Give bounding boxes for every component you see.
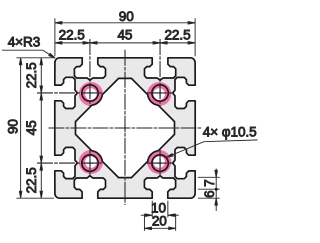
dimension chain 22.5 / 45 / 22.5 (top): [55, 42, 195, 44]
dimension 10 (slot opening width): [151, 201, 153, 218]
centerlines of bottom-right hole: [159, 149, 161, 177]
svg-text:4× φ10.5: 4× φ10.5: [203, 124, 257, 139]
dimension 90 (top overall width): [55, 22, 195, 24]
svg-text:90: 90: [119, 9, 134, 24]
pink highlight ring on bottom-left hole: [82, 153, 100, 171]
centerlines of bottom-left hole: [89, 149, 91, 177]
main horizontal centerline: [48, 127, 201, 129]
svg-text:6: 6: [202, 190, 217, 197]
svg-text:90: 90: [5, 119, 20, 134]
extrusion profile outline: [55, 58, 195, 198]
center cross marks: [121, 127, 130, 129]
extrusion profile cross-section fill: [55, 58, 195, 198]
svg-text:22.5: 22.5: [59, 28, 85, 43]
svg-text:22.5: 22.5: [24, 167, 39, 193]
svg-text:45: 45: [24, 120, 39, 135]
dimension 7 and 6 (right slot depths): [198, 176, 220, 178]
svg-text:7: 7: [202, 179, 217, 186]
dimension chain 22.5 / 45 / 22.5 (left): [40, 58, 42, 198]
svg-text:22.5: 22.5: [164, 28, 190, 43]
main vertical centerline: [124, 50, 126, 205]
dimension 90 (left overall height): [20, 58, 22, 198]
svg-text:4×R3: 4×R3: [8, 34, 40, 49]
pink highlight ring on top-left hole: [82, 85, 100, 103]
dimension 20 (slot cavity width): [143, 214, 145, 231]
pink highlight ring on bottom-right hole: [150, 153, 168, 171]
centerlines of top-left hole: [89, 39, 91, 107]
extension lines for left dims: [16, 57, 54, 59]
pink highlight ring on top-right hole: [150, 85, 168, 103]
centerlines of top-right hole: [159, 39, 161, 107]
svg-text:22.5: 22.5: [24, 62, 39, 88]
svg-text:20: 20: [152, 214, 167, 229]
svg-text:45: 45: [117, 28, 132, 43]
extension lines for top dims: [54, 18, 56, 56]
